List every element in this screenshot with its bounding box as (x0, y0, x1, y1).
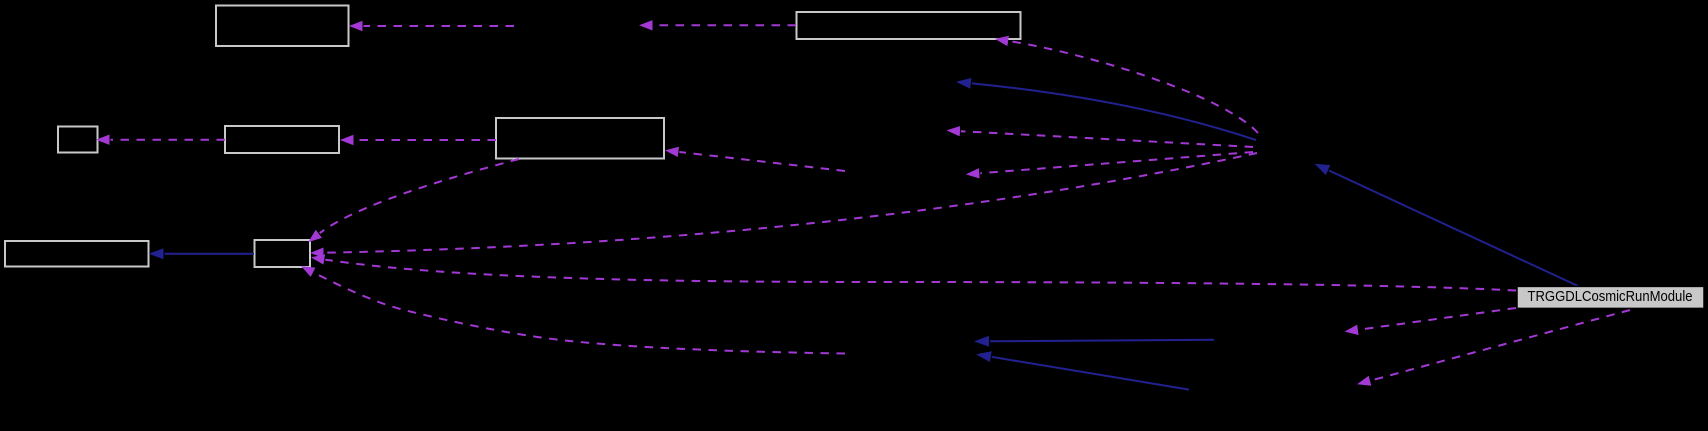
edge hub to nodeD (dashed) (961, 131, 1253, 147)
edge boxB to boxA (blue solid) (165, 253, 255, 255)
edge hub to box2 corner (dashed curve) (1009, 41, 1258, 133)
edge box5 to box4 (dashed) (355, 139, 497, 141)
node box4 (label invisible) (225, 126, 339, 153)
edge inv1 to box1 (dashed) (364, 25, 515, 27)
edge TRGGDL to boxB (dashed curve3) (325, 260, 1516, 291)
edge TRGGDL to nodeI (dashed) (1359, 308, 1516, 330)
edge box2 to inv1 (dashed) (654, 24, 797, 26)
edge box5 to boxB (dashed curve1) (320, 159, 519, 233)
node box2 (top-middle, label invisible) (797, 12, 1021, 39)
node box1 (top-left, 2-line, label invisible) (216, 6, 349, 47)
edge nodeE to box5 (dashed) (679, 152, 845, 171)
svg-text:TRGGDLCosmicRunModule: TRGGDLCosmicRunModule (1528, 288, 1693, 305)
edge hub to nodeC (blue solid curve) (972, 83, 1256, 140)
edge nodeI to nodeH (blue solid) (990, 340, 1214, 342)
edge nodeJ to nodeH (blue solid) (992, 357, 1189, 390)
edge hub to boxB (dashed curve2) (325, 153, 1258, 253)
node TRGGDLCosmicRunModule (highlighted) (1517, 286, 1704, 308)
node box5 (2-line, label invisible) (496, 118, 664, 159)
node box3 (small left, label invisible) (58, 127, 98, 153)
edge nodeH to boxB (dashed curve4) (314, 273, 845, 354)
edge TRGGDL to nodeJ (dashed) (1371, 310, 1630, 381)
edge hub to nodeE (dashed) (980, 152, 1253, 173)
edge box4 to box3 (dashed) (111, 139, 226, 141)
node boxA (bottom-left, label invisible) (5, 241, 149, 267)
edge TRGGDL to hub (blue solid) (1329, 171, 1578, 287)
node boxB (small hub left, label invisible) (255, 240, 311, 267)
